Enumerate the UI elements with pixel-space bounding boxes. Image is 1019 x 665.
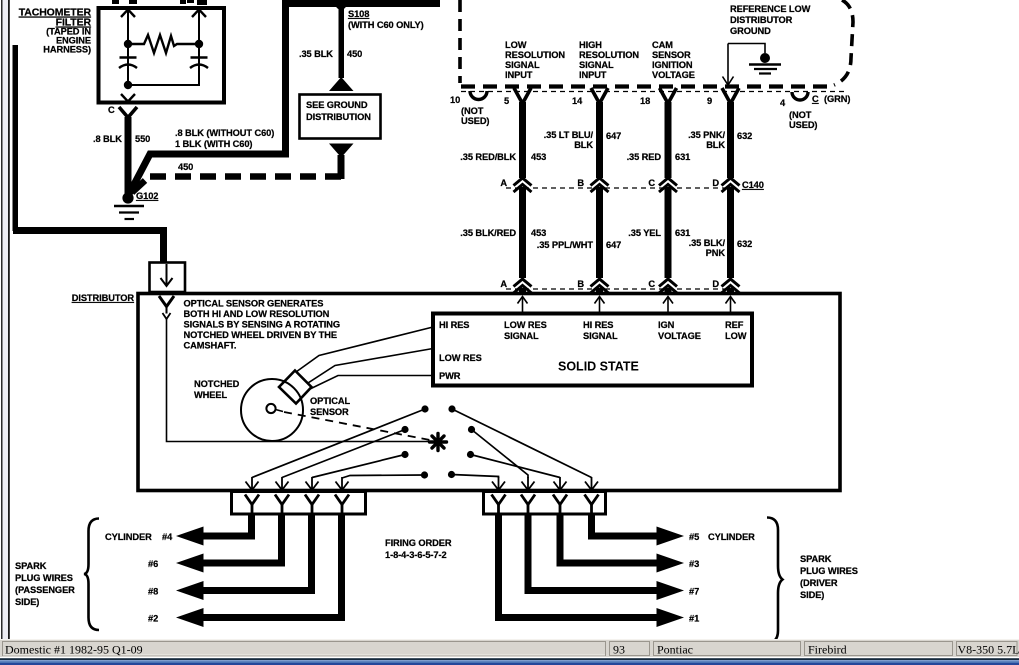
svg-text:C140: C140 [742, 180, 764, 190]
terminal fork 5 [492, 495, 506, 515]
wire 631 lower segment pin18 [665, 187, 672, 278]
arrow into solid state REF LOW [726, 297, 736, 314]
svg-text:GROUND: GROUND [730, 26, 771, 36]
filter internal right wire [192, 9, 206, 85]
svg-text:IGN: IGN [658, 320, 675, 330]
svg-text:DISTRIBUTOR: DISTRIBUTOR [72, 293, 135, 303]
svg-text:.35 PPL/WHT: .35 PPL/WHT [537, 240, 594, 250]
label high resolution signal input [579, 40, 639, 80]
label .35 BLK/RED 453 [460, 228, 546, 238]
svg-text:(NOT: (NOT [789, 110, 812, 120]
svg-text:HI RES: HI RES [583, 320, 613, 330]
node dots filter [124, 40, 203, 89]
status panel 2 [610, 642, 650, 657]
spark plug wire cylinder 2 [203, 513, 342, 618]
svg-text:SEE GROUND: SEE GROUND [306, 100, 368, 110]
svg-text:Firebird: Firebird [808, 643, 847, 657]
label .35 RED 631 [627, 152, 691, 162]
spark plug wire cylinder 7 [528, 513, 657, 591]
wire solid branch to S108 riser [128, 4, 286, 196]
svg-text:.8 BLK (WITHOUT C60): .8 BLK (WITHOUT C60) [175, 128, 274, 138]
svg-text:B: B [577, 279, 584, 289]
status panel 5 [957, 642, 1019, 657]
cap node dot 7 [421, 471, 428, 478]
left brace [84, 519, 99, 631]
solid state pin labels left [439, 320, 482, 381]
filter bottom wire [128, 68, 199, 85]
label IGN VOLTAGE [658, 320, 701, 341]
wire dot4 to terminal6 [472, 430, 529, 479]
svg-text:SIGNAL: SIGNAL [504, 331, 539, 341]
svg-text:#1: #1 [689, 614, 699, 624]
svg-text:5: 5 [504, 96, 509, 106]
connector A row1 chevrons [514, 178, 532, 192]
svg-text:G102: G102 [136, 191, 158, 201]
optical sensor block [279, 371, 312, 404]
arrow into solid state IGN VOLTAGE [663, 297, 673, 314]
distributor inner fork [159, 296, 174, 319]
dashed connector box right edge [834, 0, 853, 85]
firing order note [385, 538, 452, 560]
svg-text:VOLTAGE: VOLTAGE [658, 331, 701, 341]
rotor asterisk [430, 434, 447, 451]
svg-text:SENSOR: SENSOR [310, 407, 349, 417]
svg-text:#4: #4 [162, 532, 173, 542]
wire top bus to connector [282, 0, 440, 7]
wire stub into distributor pin9 [727, 288, 734, 295]
label spark plug wires driver side [800, 554, 858, 600]
svg-text:CAM: CAM [652, 40, 673, 50]
svg-text:V8-350 5.7L: V8-350 5.7L [958, 643, 1019, 657]
terminal fork 8 [585, 495, 599, 515]
svg-text:PLUG WIRES: PLUG WIRES [800, 566, 858, 576]
distributor entry connector box [150, 263, 186, 293]
wire dot6 to terminal7 [471, 455, 561, 478]
svg-text:NOTCHED: NOTCHED [194, 379, 240, 389]
arrowhead cylinder 5 [657, 527, 685, 546]
arrowhead cylinder 7 [657, 581, 685, 600]
G102 ground symbol [114, 206, 144, 219]
wire dot8 to terminal5 [452, 475, 499, 479]
cap node dot 5 [401, 451, 408, 458]
terminal arrow 8 [585, 477, 598, 490]
wire 647 lower segment pin14 [596, 187, 603, 278]
label cylinder #5 [689, 532, 755, 542]
solid state module box U1 [433, 314, 752, 386]
status panel 4 [805, 642, 953, 657]
svg-text:D: D [712, 279, 719, 289]
label cam sensor ignition voltage [652, 40, 695, 80]
resistor filter [132, 35, 195, 53]
dashed wire 450 [132, 177, 341, 193]
svg-text:631: 631 [675, 152, 690, 162]
arrow into solid state LOW RES SIGNAL [518, 297, 528, 314]
wire stub below see-ground [338, 155, 345, 179]
svg-text:FIRING ORDER: FIRING ORDER [385, 538, 452, 548]
entry box arrow down [161, 264, 173, 286]
connector B row1 chevrons [591, 178, 609, 192]
arrowhead cylinder 8 [176, 581, 204, 600]
svg-text:HI RES: HI RES [439, 320, 469, 330]
svg-text:CYLINDER: CYLINDER [708, 532, 755, 542]
filter exit chevron down [121, 94, 135, 102]
label low resolution signal input [505, 40, 565, 80]
wire sensor to HI RES [296, 327, 433, 372]
svg-text:LOW RES: LOW RES [439, 353, 482, 363]
terminal arrow 4 [336, 477, 349, 490]
svg-text:SIGNAL: SIGNAL [579, 60, 614, 70]
svg-text:631: 631 [675, 228, 690, 238]
terminal arrow 3 [306, 477, 319, 490]
svg-text:RESOLUTION: RESOLUTION [505, 50, 565, 60]
spark plug wire cylinder 3 [560, 513, 657, 563]
wire stub into distributor pin5 [519, 288, 526, 295]
svg-text:#8: #8 [148, 587, 158, 597]
label spark plug wires passenger side [15, 561, 75, 607]
terminal fork 7 [553, 495, 567, 515]
wire thick left edge bar [13, 45, 19, 231]
wire 631 upper segment pin18 [665, 102, 672, 178]
terminal arrow 5 [492, 477, 505, 490]
arrowhead cylinder 6 [176, 554, 204, 573]
svg-text:.35 BLK/RED: .35 BLK/RED [460, 228, 516, 238]
terminal arrow 7 [554, 477, 567, 490]
tachometer filter box [99, 8, 225, 103]
terminal arrow 6 [522, 477, 535, 490]
label .35 RED/BLK 453 [460, 152, 546, 162]
connector C row2 chevrons [659, 279, 677, 293]
connector D row2 chevrons [722, 279, 740, 293]
wire dot1 to terminal1 [252, 409, 425, 478]
terminal fork 4 [335, 495, 349, 515]
wheel hub [266, 404, 283, 413]
svg-text:453: 453 [531, 152, 546, 162]
notched wheel [241, 379, 303, 441]
pin 10 not used text [461, 106, 489, 126]
arrowhead cylinder 3 [657, 554, 685, 573]
svg-text:LOW: LOW [725, 331, 747, 341]
status panel 3 [654, 642, 801, 657]
pin 5 fork [514, 88, 531, 104]
bottom blue band [0, 657, 1019, 665]
svg-text:.35 BLK: .35 BLK [299, 49, 333, 59]
cap node dot 2 [448, 405, 455, 412]
svg-text:USED): USED) [461, 116, 489, 126]
svg-text:C: C [108, 105, 115, 115]
svg-text:632: 632 [737, 239, 752, 249]
terminal arrow 1 [246, 477, 259, 490]
label REF LOW [725, 320, 747, 341]
svg-text:C: C [648, 178, 655, 188]
cap node dot 1 [421, 405, 428, 412]
pin 10 not-used arc [470, 91, 487, 100]
reference ground symbol [749, 53, 781, 74]
arrow into solid state HI RES SIGNAL [595, 297, 605, 314]
svg-text:CYLINDER: CYLINDER [105, 532, 152, 542]
svg-text:SIGNAL: SIGNAL [583, 331, 618, 341]
cap node dot 3 [401, 426, 408, 433]
svg-text:#3: #3 [689, 559, 699, 569]
svg-text:NOTCHED WHEEL DRIVEN BY THE: NOTCHED WHEEL DRIVEN BY THE [184, 330, 337, 340]
arrow into see-ground box [329, 77, 354, 91]
capacitor right [190, 58, 208, 69]
wire dot5 to terminal3 [312, 455, 405, 478]
svg-text:.35 YEL: .35 YEL [628, 228, 661, 238]
dashed sensing line [284, 412, 430, 440]
svg-text:1-8-4-3-6-5-7-2: 1-8-4-3-6-5-7-2 [385, 550, 447, 560]
svg-text:SPARK: SPARK [15, 561, 47, 571]
svg-text:.35 RED/BLK: .35 RED/BLK [460, 152, 516, 162]
svg-text:93: 93 [613, 643, 625, 657]
terminal fork 1 [245, 495, 259, 515]
wire 450 S108 drop [339, 7, 345, 78]
svg-text:A: A [500, 178, 507, 188]
svg-text:#7: #7 [689, 587, 699, 597]
svg-text:SIGNAL: SIGNAL [505, 60, 540, 70]
svg-text:OPTICAL SENSOR GENERATES: OPTICAL SENSOR GENERATES [184, 299, 324, 309]
svg-text:647: 647 [606, 240, 621, 250]
svg-text:.35 PNK/: .35 PNK/ [688, 130, 725, 140]
see ground distribution box [300, 95, 381, 139]
svg-text:LOW: LOW [505, 40, 527, 50]
right terminal block [484, 492, 606, 515]
terminal fork 2 [275, 495, 289, 515]
spark plug wire cylinder 5 [592, 513, 658, 536]
connector D row1 chevrons [722, 178, 740, 192]
wire stub into distributor pin18 [665, 288, 672, 295]
svg-text:PNK: PNK [706, 248, 726, 258]
cap node dot 4 [468, 426, 475, 433]
pin 4 not-used arc [792, 92, 808, 100]
label reference low distributor ground [730, 4, 811, 36]
spark plug wire cylinder 8 [203, 513, 312, 591]
arrowhead cylinder 4 [176, 527, 204, 546]
svg-text:REFERENCE LOW: REFERENCE LOW [730, 4, 811, 14]
right brace [767, 518, 783, 644]
svg-text:CAMSHAFT.: CAMSHAFT. [184, 341, 237, 351]
dashed connector box left edge [458, 0, 462, 83]
svg-text:#6: #6 [148, 559, 158, 569]
terminal fork 3 [305, 495, 319, 515]
connector C fork [119, 107, 137, 118]
spark plug wire cylinder 6 [203, 513, 282, 563]
svg-text:SIGNALS BY SENSING A ROTATING: SIGNALS BY SENSING A ROTATING [184, 320, 341, 330]
spark plug wire cylinder 1 [499, 513, 658, 618]
arrowhead cylinder 1 [657, 608, 685, 627]
cut-off wire stubs above filter box [112, 0, 207, 5]
svg-text:IGNITION: IGNITION [652, 60, 693, 70]
dashed connector box bottom edge [461, 84, 832, 88]
svg-text:(DRIVER: (DRIVER [800, 578, 838, 588]
svg-text:647: 647 [606, 131, 621, 141]
see ground distribution text [306, 100, 371, 122]
svg-text:(PASSENGER: (PASSENGER [15, 585, 75, 595]
svg-text:S108: S108 [348, 9, 369, 19]
connector C row1 chevrons [659, 178, 677, 192]
svg-text:.8 BLK: .8 BLK [93, 134, 122, 144]
capacitor left [119, 58, 137, 69]
svg-text:INPUT: INPUT [579, 70, 607, 80]
wire dot7 to terminal4 [342, 475, 425, 478]
connector face thin dashed line [461, 91, 848, 93]
window left border [1, 0, 10, 641]
svg-text:SIDE): SIDE) [15, 597, 39, 607]
status panel 1 [3, 642, 606, 657]
optical sensor label [310, 396, 351, 417]
wire sensor feed vertical [167, 318, 430, 442]
connector row2 dashed link [506, 288, 737, 290]
G102 junction dot [122, 192, 133, 203]
svg-text:BLK: BLK [574, 140, 593, 150]
label LOW RES SIGNAL [504, 320, 547, 341]
svg-text:VOLTAGE: VOLTAGE [652, 70, 695, 80]
svg-text:C: C [648, 279, 655, 289]
left terminal block [232, 492, 366, 515]
svg-text:(WITH C60 ONLY): (WITH C60 ONLY) [348, 20, 424, 30]
cap node dot 8 [448, 471, 455, 478]
pin 18 fork [660, 88, 677, 104]
label HI RES SIGNAL [583, 320, 618, 341]
svg-text:LOW RES: LOW RES [504, 320, 547, 330]
connector row1 dashed link [506, 187, 738, 189]
connector B row2 chevrons [591, 279, 609, 293]
wire sensor to PWR [310, 376, 433, 390]
wire 632 lower segment pin9 [727, 187, 734, 278]
svg-text:D: D [712, 178, 719, 188]
label .35 YEL 631 [628, 228, 690, 238]
svg-text:SIDE): SIDE) [800, 590, 824, 600]
arrowhead cylinder 2 [176, 608, 204, 627]
svg-text:SOLID STATE: SOLID STATE [558, 360, 639, 374]
notched wheel label [194, 379, 240, 400]
svg-text:.35 BLK/: .35 BLK/ [689, 238, 726, 248]
wire sensor to LOW RES [308, 349, 433, 384]
reference ground wire [723, 44, 766, 86]
svg-text:450: 450 [178, 162, 193, 172]
svg-text:550: 550 [135, 134, 150, 144]
svg-text:#2: #2 [148, 614, 158, 624]
svg-text:OPTICAL: OPTICAL [310, 396, 351, 406]
svg-text:USED): USED) [789, 120, 817, 130]
filter internal left wire [121, 9, 135, 84]
svg-text:REF: REF [725, 320, 744, 330]
svg-text:(GRN): (GRN) [824, 94, 850, 104]
svg-text:B: B [577, 178, 584, 188]
distributor box [138, 294, 840, 491]
svg-text:1 BLK (WITH C60): 1 BLK (WITH C60) [175, 139, 252, 149]
connector A row2 chevrons [514, 279, 532, 293]
wire dot3 to terminal2 [282, 430, 405, 478]
svg-text:632: 632 [737, 131, 752, 141]
wire stub into distributor pin14 [596, 288, 603, 295]
optical sensor note text [184, 299, 341, 351]
svg-text:INPUT: INPUT [505, 70, 533, 80]
svg-text:.35 LT BLU/: .35 LT BLU/ [544, 130, 594, 140]
svg-text:SPARK: SPARK [800, 554, 832, 564]
wire to distributor entry [13, 231, 164, 264]
pin 9 fork [722, 88, 739, 104]
svg-text:HARNESS): HARNESS) [43, 45, 91, 55]
svg-text:10: 10 [450, 95, 460, 105]
svg-text:BOTH HI AND LOW RESOLUTION: BOTH HI AND LOW RESOLUTION [184, 309, 330, 319]
svg-text:#5: #5 [689, 532, 699, 542]
pin 14 fork [591, 88, 608, 104]
tachometer filter label [19, 7, 92, 55]
svg-text:PLUG WIRES: PLUG WIRES [15, 573, 73, 583]
wire 453 lower segment pin5 [519, 187, 526, 278]
status bar [0, 639, 1019, 657]
svg-text:A: A [500, 279, 507, 289]
svg-text:9: 9 [707, 96, 712, 106]
wire 647 upper segment pin14 [596, 102, 603, 178]
arrow out of see-ground box [329, 144, 354, 158]
label .35 PPL/WHT 647 [537, 240, 621, 250]
pin 4 not used text [789, 110, 817, 130]
svg-text:HIGH: HIGH [579, 40, 602, 50]
label .35 PNK/BLK 632 [688, 130, 752, 150]
svg-text:WHEEL: WHEEL [194, 390, 227, 400]
svg-text:453: 453 [531, 228, 546, 238]
label cylinder #4 [105, 532, 173, 542]
svg-text:SENSOR: SENSOR [652, 50, 691, 60]
svg-text:Domestic #1 1982-95 Q1-09: Domestic #1 1982-95 Q1-09 [5, 643, 143, 657]
svg-text:Pontiac: Pontiac [657, 643, 693, 657]
spark plug wire cylinder 4 [203, 513, 252, 536]
svg-text:C: C [812, 94, 819, 104]
svg-text:RESOLUTION: RESOLUTION [579, 50, 639, 60]
svg-text:450: 450 [347, 49, 362, 59]
svg-text:18: 18 [640, 96, 650, 106]
terminal arrow 2 [276, 477, 289, 490]
wire 632 upper segment pin9 [727, 102, 734, 178]
label .35 LT BLU/BLK 647 [544, 130, 622, 150]
splice dot S108 [335, 0, 346, 10]
label .35 BLK/PNK 632 [689, 238, 753, 258]
wire dot2 to terminal8 [452, 409, 592, 478]
svg-text:BLK: BLK [706, 140, 725, 150]
svg-text:(NOT: (NOT [461, 106, 484, 116]
wire 453 upper segment pin5 [519, 102, 526, 178]
svg-text:.35 RED: .35 RED [627, 152, 662, 162]
svg-text:PWR: PWR [439, 371, 461, 381]
wire .8 BLK 550 vertical [125, 117, 132, 195]
terminal fork 6 [521, 495, 535, 515]
svg-text:14: 14 [572, 96, 583, 106]
cap node dot 6 [467, 451, 474, 458]
svg-text:DISTRIBUTION: DISTRIBUTION [306, 112, 371, 122]
svg-text:DISTRIBUTOR: DISTRIBUTOR [730, 15, 793, 25]
